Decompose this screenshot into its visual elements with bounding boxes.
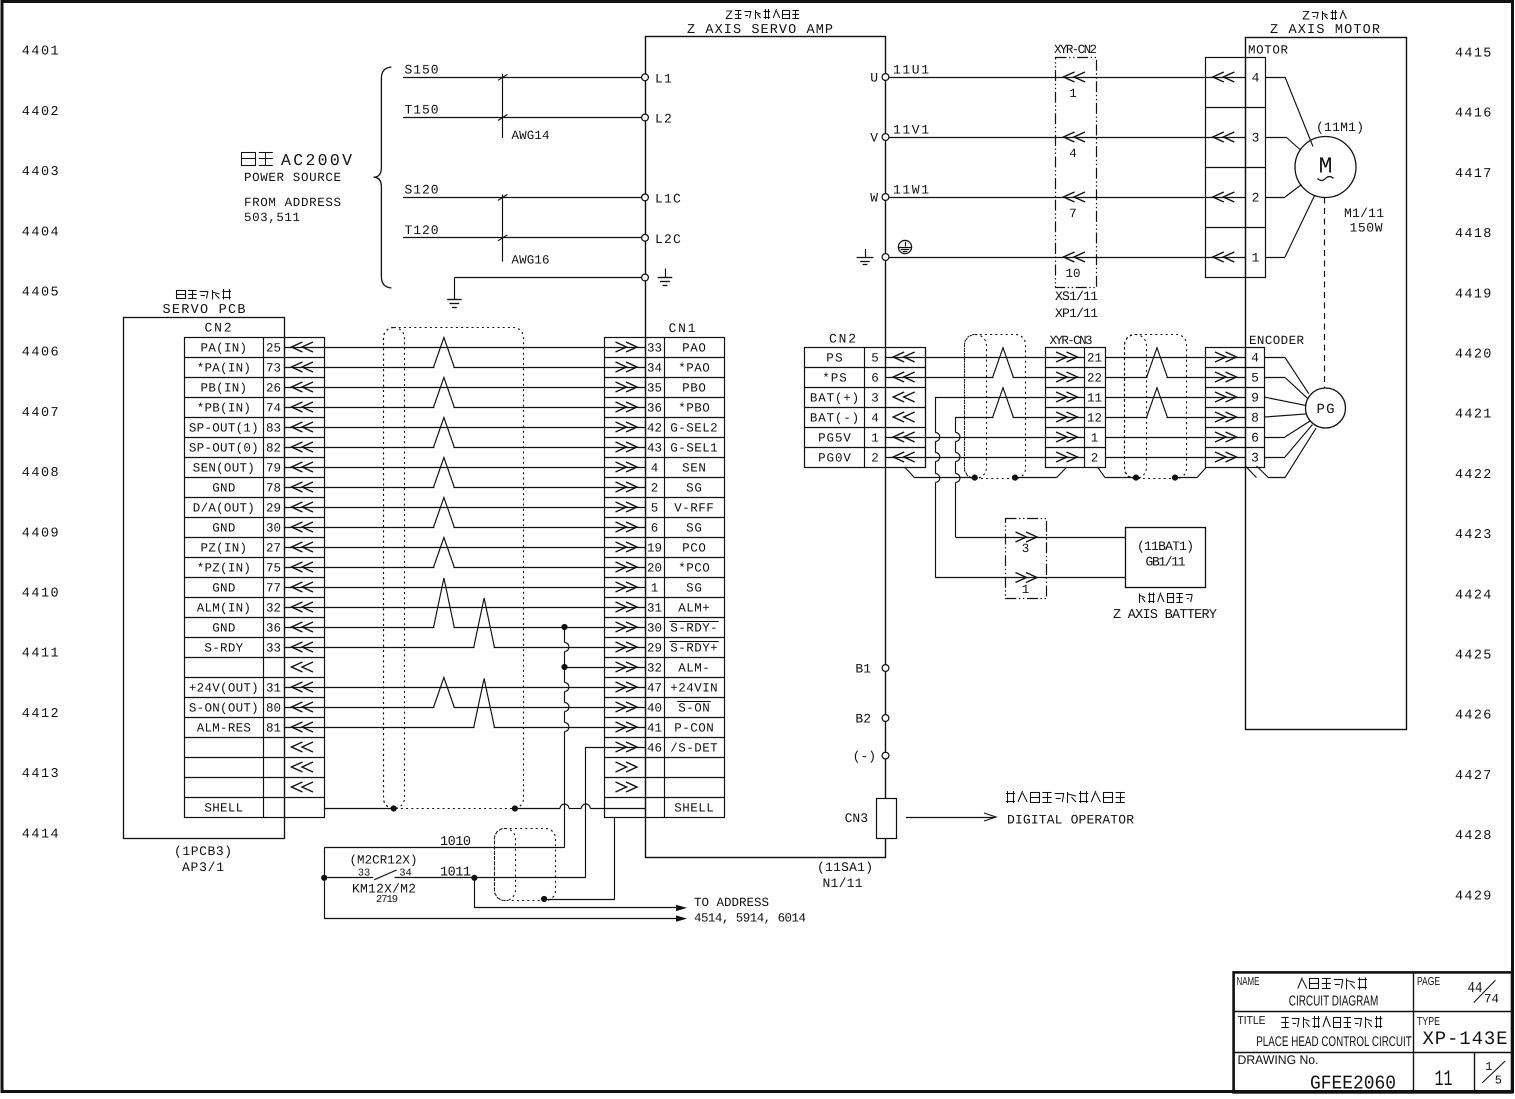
svg-text:77: 77 [266, 582, 281, 596]
svg-text:503,511: 503,511 [244, 211, 300, 225]
label Z axis battery (japanese) [1140, 593, 1193, 604]
terminal W [870, 191, 889, 206]
svg-text:G-SEL2: G-SEL2 [670, 422, 717, 436]
svg-text:47: 47 [647, 682, 662, 696]
terminal PE with ground symbol [642, 269, 673, 286]
cable shield encoder pairs [1125, 335, 1187, 479]
CN2 encoder row PG0V pin 2 [818, 452, 915, 466]
svg-text:1: 1 [1252, 251, 1260, 266]
svg-text:4427: 4427 [1455, 769, 1493, 784]
wire encoder pin5 to PG [1265, 378, 1308, 399]
svg-text:NAME: NAME [1237, 976, 1260, 988]
svg-text:P-CON: P-CON [674, 722, 714, 736]
svg-text:S120: S120 [405, 183, 439, 198]
wire XYR-CN3 to encoder row 4 [1105, 417, 1245, 419]
battery connector pin 3 [1016, 532, 1038, 556]
CN2 row spare pin - [292, 762, 314, 772]
CN1 row pin 47 +24VIN [616, 682, 718, 696]
wire XYR-CN3 to encoder row 2 [1105, 377, 1245, 379]
twisted pair mark encoder PS pair [1147, 348, 1168, 379]
svg-text:PBO: PBO [682, 382, 706, 396]
CN2 encoder row BAT(-) pin 4 [810, 412, 915, 426]
junction dot shield B right [1172, 475, 1178, 481]
svg-text:TITLE: TITLE [1238, 1015, 1266, 1027]
CN1 row pin 42 G-SEL2 [616, 422, 718, 436]
svg-text:SG: SG [686, 482, 702, 496]
svg-text:6: 6 [1251, 431, 1259, 446]
svg-text:32: 32 [647, 662, 662, 676]
CN1 row pin 1 SG [616, 582, 702, 596]
svg-text:31: 31 [266, 682, 281, 696]
XYR-CN3 pin 11 [1056, 392, 1102, 406]
svg-text:31: 31 [647, 602, 662, 616]
ground symbol amp PE output [857, 249, 874, 265]
svg-text:2: 2 [1091, 452, 1099, 466]
svg-text:SEN(OUT): SEN(OUT) [193, 462, 255, 476]
svg-text:11W1: 11W1 [893, 183, 929, 198]
cable marker AWG16 [498, 194, 550, 267]
CN1 row pin - spare [616, 782, 638, 792]
wire to CN1 /S-DET [586, 747, 645, 749]
wire CN2-CN1 row 7 [284, 467, 645, 469]
svg-text:5: 5 [651, 502, 659, 516]
svg-text:10: 10 [1065, 267, 1080, 281]
title block TYPE [1417, 1016, 1440, 1028]
svg-text:S-RDY: S-RDY [204, 642, 243, 656]
svg-text:44: 44 [1468, 980, 1483, 997]
svg-text:4415: 4415 [1455, 47, 1493, 62]
CN2 row SHELL pin - [204, 802, 243, 816]
wire CN2-CN1 row 11 [284, 547, 645, 549]
wire SHELL right segment [515, 804, 645, 809]
left margin grid reference numbers 4401-4414 [22, 45, 61, 843]
svg-text:30: 30 [647, 622, 662, 636]
svg-text:S-RDY+: S-RDY+ [670, 642, 717, 656]
label M1/11 [1344, 206, 1384, 221]
svg-text:4418: 4418 [1455, 227, 1493, 242]
svg-text:4: 4 [1252, 71, 1260, 86]
motor connector pin 4 [1205, 71, 1260, 86]
label XS1/11 [1055, 289, 1098, 304]
motor M1 Z-AXIS-MOTOR box [1246, 38, 1407, 730]
svg-text:PA(IN): PA(IN) [201, 342, 247, 356]
CN1 row pin 29 S-RDY+ [616, 642, 719, 656]
label N1/11 below amp [823, 876, 863, 891]
label 2719 [376, 894, 398, 906]
wire CN2-CN1 row 14 [284, 607, 645, 609]
svg-text:4420: 4420 [1455, 348, 1493, 363]
CN2 row SEN(OUT) pin 79 [193, 462, 313, 476]
label DIGITAL OPERATOR [1007, 813, 1134, 828]
CN1 row pin 6 SG [616, 522, 702, 536]
CN2 encoder row BAT(+) pin 3 [810, 392, 915, 406]
svg-text:L2C: L2C [655, 232, 682, 247]
svg-text:XYR-CN2: XYR-CN2 [1054, 43, 1097, 57]
svg-text:/S-DET: /S-DET [670, 742, 718, 756]
svg-text:78: 78 [266, 482, 281, 496]
title block sheet 11 [1435, 1067, 1453, 1092]
svg-text:ENCODER: ENCODER [1249, 334, 1304, 348]
svg-text:4403: 4403 [22, 165, 61, 180]
title block title japanese [1281, 1016, 1382, 1028]
svg-text:*PZ(IN): *PZ(IN) [197, 562, 251, 576]
cable shield main harness [384, 328, 524, 809]
CN2 row SP-OUT(1) pin 83 [189, 422, 313, 436]
wire CN2-CN1 row 12 [284, 567, 645, 569]
wire SHELL left segment [324, 808, 394, 810]
terminal V [870, 131, 889, 146]
svg-text:M1/11: M1/11 [1344, 206, 1384, 221]
label Z axis servo amp (japanese) [725, 8, 799, 23]
svg-text:80: 80 [266, 702, 281, 716]
svg-text:5: 5 [1495, 1074, 1502, 1088]
svg-text:SHELL: SHELL [204, 802, 243, 816]
title block page 44/74 [1468, 980, 1500, 1007]
CN2 row PB(IN) pin 26 [201, 382, 313, 396]
svg-text:GFEE2060: GFEE2060 [1310, 1073, 1396, 1095]
svg-text:4421: 4421 [1455, 408, 1493, 423]
wire CN2-CN1 row 2 [284, 367, 645, 369]
title block TITLE [1238, 1015, 1266, 1027]
wire motor pin4 to M [1266, 77, 1314, 147]
XYR-CN2 pin 7 arrow [1064, 192, 1086, 221]
CN1 row pin - SHELL [674, 802, 714, 816]
protective earth symbol on output [898, 240, 911, 253]
title block name japanese [1298, 978, 1367, 990]
svg-text:PB(IN): PB(IN) [201, 382, 247, 396]
XYR-CN3 pin 1 [1056, 432, 1098, 446]
svg-text:4405: 4405 [22, 286, 61, 301]
svg-text:AWG14: AWG14 [512, 129, 550, 143]
svg-text:1011: 1011 [440, 866, 471, 881]
dashed shaft link M to PG [1324, 198, 1326, 389]
wire CN2-CN1 row 15 [284, 627, 645, 629]
encoder pin 6 [1215, 431, 1259, 446]
CN2 row GND pin 30 [212, 522, 313, 536]
relay contact KM12X 33-34 [324, 868, 474, 880]
svg-text:3: 3 [1022, 542, 1030, 556]
svg-text:4422: 4422 [1455, 468, 1493, 483]
title block PAGE [1417, 976, 1440, 988]
wire 1011 segment right [440, 866, 586, 881]
motor connector pin 2 [1205, 191, 1259, 206]
svg-text:4409: 4409 [22, 526, 61, 541]
motor symbol M (11M1) [1295, 120, 1364, 198]
svg-text:*PS: *PS [822, 372, 847, 386]
svg-text:75: 75 [266, 562, 281, 576]
battery connector block (dash-dot) [1006, 519, 1047, 599]
junction dot shield right [512, 805, 518, 811]
svg-text:6: 6 [871, 372, 879, 386]
wire PG0V to XYR-CN3 [886, 457, 1085, 459]
svg-text:6: 6 [651, 522, 659, 536]
svg-text:(11BAT1): (11BAT1) [1137, 539, 1194, 554]
twisted pair mark S-ON/ALM-RES tall [474, 679, 495, 730]
cable shield 1010/1011 [495, 829, 556, 901]
svg-text:G-SEL1: G-SEL1 [670, 442, 717, 456]
svg-text:PAGE: PAGE [1417, 976, 1440, 988]
label (1PCB3) [174, 844, 232, 859]
wire CN2-CN1 row 4 [284, 407, 645, 409]
wire CN2-CN1 row 6 [284, 447, 645, 449]
wire XYR-CN3 to encoder row 3 [1105, 397, 1245, 399]
encoder pin 5 [1215, 371, 1259, 386]
svg-text:GND: GND [212, 622, 235, 636]
label TO ADDRESS [694, 896, 769, 910]
label XP1/11 [1055, 306, 1098, 321]
CN1 row pin 31 ALM+ [616, 602, 710, 616]
svg-text:150W: 150W [1350, 221, 1383, 236]
twisted pair mark GND/ALM tall [434, 578, 455, 629]
svg-text:(1PCB3): (1PCB3) [174, 844, 232, 859]
wire 1011 branch down [474, 878, 476, 908]
XYR-CN3 pin 12 [1056, 412, 1102, 426]
svg-text:1: 1 [1069, 87, 1077, 101]
svg-text:CN2: CN2 [205, 321, 232, 336]
svg-text:7: 7 [1069, 207, 1077, 221]
wire BAT- branch [956, 417, 1085, 538]
title block XP-143E [1423, 1028, 1508, 1050]
wire *PS to XYR-CN3 [886, 377, 1085, 379]
svg-text:3: 3 [871, 392, 879, 406]
svg-text:4410: 4410 [22, 587, 61, 602]
CN1 row pin 5 V-RFF [616, 502, 714, 516]
svg-text:30: 30 [266, 522, 281, 536]
ground symbol power input [447, 300, 462, 308]
wire junction to CN1 ALM- [565, 667, 646, 669]
junction dot relay input [321, 875, 327, 881]
CN2 row spare pin - [292, 782, 314, 792]
terminal PE out [882, 254, 889, 261]
svg-text:22: 22 [1087, 372, 1102, 386]
terminal L2 [642, 112, 673, 127]
svg-text:PAO: PAO [682, 342, 706, 356]
svg-text:PG0V: PG0V [818, 452, 851, 466]
CN1 row pin 30 S-RDY- [616, 622, 719, 636]
svg-text:BAT(-): BAT(-) [810, 412, 859, 426]
svg-text:4413: 4413 [22, 767, 61, 782]
servo amplifier U=Z-AXIS-SERVO-AMP box [646, 37, 886, 858]
label servo pcb (japanese) [177, 289, 231, 300]
terminal (-) [853, 749, 889, 764]
CN1 row pin 2 SG [616, 482, 702, 496]
svg-text:CN2: CN2 [829, 332, 856, 347]
svg-text:35: 35 [647, 382, 662, 396]
encoder connector table [1206, 334, 1305, 468]
brace for power source group [374, 67, 392, 288]
wire T120 to L2C [403, 223, 642, 238]
label AC200V [281, 151, 352, 170]
svg-text:FROM ADDRESS: FROM ADDRESS [244, 196, 341, 210]
svg-text:11V1: 11V1 [893, 123, 929, 138]
svg-text:V-RFF: V-RFF [674, 502, 714, 516]
svg-text:L1C: L1C [655, 191, 682, 206]
XYR-CN3 pin 2 [1056, 452, 1098, 466]
junction dot small shield drain [541, 896, 547, 902]
svg-text:32: 32 [266, 602, 281, 616]
twisted pair mark +24V/S-ON [434, 678, 455, 710]
label GB1/11 [1146, 555, 1186, 570]
XYR-CN2 pin 1 arrow [1064, 72, 1086, 101]
label SERVO PCB [163, 303, 246, 318]
wire left bus vertical [324, 848, 326, 919]
label FROM ADDRESS [244, 196, 341, 210]
label (11BAT1) [1137, 539, 1194, 554]
svg-text:3: 3 [1251, 451, 1259, 466]
svg-text:SG: SG [686, 582, 702, 596]
battery GB1 (11BAT1) box [1126, 528, 1206, 588]
wire encoder pin8 to PG [1265, 414, 1307, 417]
svg-text:N1/11: N1/11 [823, 876, 863, 891]
svg-text:M: M [1319, 154, 1333, 180]
svg-text:Z AXIS MOTOR: Z AXIS MOTOR [1270, 23, 1380, 38]
svg-text:4429: 4429 [1455, 889, 1493, 904]
label AP3/1 [182, 860, 224, 875]
CN2 row ALM(IN) pin 32 [197, 602, 313, 616]
svg-text:*PAO: *PAO [678, 362, 710, 376]
label digital operator (japanese) [1006, 791, 1125, 803]
svg-text:SP-OUT(1): SP-OUT(1) [189, 422, 259, 436]
svg-text:V: V [870, 131, 878, 146]
CN1 row pin 34 *PAO [616, 362, 710, 376]
CN2 row spare pin - [292, 662, 314, 672]
svg-text:4514, 5914, 6014: 4514, 5914, 6014 [694, 912, 806, 926]
junction dot shield A right [1012, 475, 1018, 481]
svg-text:2: 2 [651, 482, 659, 496]
wire to address lower arrow [324, 915, 687, 921]
svg-text:*PCO: *PCO [678, 562, 710, 576]
terminal L2C [642, 232, 682, 247]
svg-text:43: 43 [647, 442, 662, 456]
CN2 row +24V(OUT) pin 31 [189, 682, 313, 696]
wire PG5V to XYR-CN3 [886, 437, 1085, 439]
svg-text:SERVO PCB: SERVO PCB [163, 303, 246, 318]
svg-text:Z AXIS BATTERY: Z AXIS BATTERY [1113, 608, 1217, 623]
junction dot shield A left [972, 475, 978, 481]
svg-text:S-RDY-: S-RDY- [670, 622, 717, 636]
wire PS to XYR-CN3 [886, 357, 1085, 359]
cable shield PS pairs [965, 335, 1026, 479]
svg-text:36: 36 [647, 402, 662, 416]
right margin grid reference numbers 4415-4429 [1455, 47, 1493, 905]
svg-text:4: 4 [1069, 147, 1077, 161]
svg-text:XS1/11: XS1/11 [1055, 289, 1098, 304]
CN2 row GND pin 36 [212, 622, 313, 636]
label (M2CR12X) [350, 854, 418, 868]
CN2 row PA(IN) pin 25 [201, 342, 313, 356]
svg-text:4: 4 [1251, 351, 1259, 366]
svg-text:33: 33 [647, 342, 662, 356]
connector CN1 table on servo amp [605, 321, 725, 818]
svg-text:46: 46 [647, 742, 662, 756]
wire battery pin1 [1005, 577, 1125, 579]
svg-text:25: 25 [266, 342, 281, 356]
svg-text:1: 1 [1485, 1060, 1492, 1074]
junction dot 1011 branch [471, 875, 477, 881]
wire XYR-CN3 to encoder row 6 [1105, 457, 1245, 459]
svg-text:S150: S150 [405, 63, 439, 78]
svg-text:ALM+: ALM+ [678, 602, 710, 616]
twisted pair mark PS/*PS [993, 348, 1014, 379]
svg-text:CN1: CN1 [669, 321, 696, 336]
label MOTOR [1248, 44, 1288, 58]
svg-text:(-): (-) [853, 749, 876, 764]
junction dot S-RDY- net [561, 624, 567, 630]
label KM12X/M2 [352, 882, 416, 897]
svg-text:(11SA1): (11SA1) [817, 860, 873, 875]
svg-text:B2: B2 [855, 712, 871, 727]
wire vertical S-RDY-/ALM- to 1010 [565, 627, 570, 848]
terminal L1C [642, 191, 682, 206]
svg-text:ALM-RES: ALM-RES [197, 722, 251, 736]
svg-text:GND: GND [212, 582, 235, 596]
svg-text:+24V(OUT): +24V(OUT) [189, 682, 259, 696]
svg-text:2: 2 [871, 452, 879, 466]
svg-text:41: 41 [647, 722, 662, 736]
label 4514,5914,6014 [694, 912, 806, 926]
svg-text:40: 40 [647, 702, 662, 716]
svg-text:1: 1 [1091, 432, 1099, 446]
connector CN2 table on amp (encoder) [805, 332, 926, 468]
encoder symbol PG [1306, 388, 1346, 428]
wire to address upper arrow [474, 905, 687, 911]
XYR-CN3 pin 21 [1056, 352, 1102, 366]
svg-text:PZ(IN): PZ(IN) [201, 542, 247, 556]
wire CN2-CN1 row 19 [284, 707, 645, 709]
label Z AXIS MOTOR [1270, 23, 1380, 38]
label Z AXIS BATTERY [1113, 608, 1217, 623]
wire shield drain right [1098, 467, 1207, 478]
motor connector pin 3 [1205, 131, 1259, 146]
CN1 row pin 41 P-CON [616, 722, 714, 736]
svg-text:9: 9 [1251, 391, 1259, 406]
svg-text:ALM(IN): ALM(IN) [197, 602, 251, 616]
svg-text:3: 3 [1252, 131, 1260, 146]
CN1 row pin 33 PAO [616, 342, 706, 356]
CN2 row S-RDY pin 33 [204, 642, 313, 656]
CN2 row *PA(IN) pin 73 [197, 362, 313, 376]
title block DRAWING No. [1238, 1053, 1319, 1067]
svg-text:+24VIN: +24VIN [670, 682, 717, 696]
svg-text:MOTOR: MOTOR [1248, 44, 1288, 58]
CN2 row ALM-RES pin 81 [197, 722, 313, 736]
CN1 row pin 43 G-SEL1 [616, 442, 718, 456]
svg-text:PG: PG [1317, 402, 1335, 418]
servo PCB box (1PCB3) [124, 318, 285, 839]
svg-text:21: 21 [1087, 352, 1102, 366]
svg-text:2: 2 [1252, 191, 1260, 206]
svg-text:W: W [870, 191, 878, 206]
svg-text:20: 20 [647, 562, 662, 576]
connector XYR-CN3 block [1046, 334, 1106, 468]
battery connector pin 1 [1016, 573, 1038, 598]
svg-text:82: 82 [266, 442, 281, 456]
svg-text:TYPE: TYPE [1417, 1016, 1440, 1028]
svg-text:4424: 4424 [1455, 588, 1493, 603]
svg-text:XYR-CN3: XYR-CN3 [1050, 334, 1093, 348]
svg-text:11: 11 [1087, 392, 1102, 406]
svg-text:SHELL: SHELL [674, 802, 714, 816]
wire encoder shield to PG [1245, 428, 1316, 477]
wire S120 to L1C [403, 183, 642, 198]
label Z AXIS SERVO AMP [687, 23, 833, 38]
svg-text:U: U [870, 71, 878, 86]
svg-text:11: 11 [1435, 1067, 1453, 1092]
wire encoder pin3 to PG [1265, 425, 1313, 458]
wire CN2-CN1 row 18 [284, 687, 645, 689]
svg-text:1: 1 [651, 582, 659, 596]
svg-text:33: 33 [266, 642, 281, 656]
